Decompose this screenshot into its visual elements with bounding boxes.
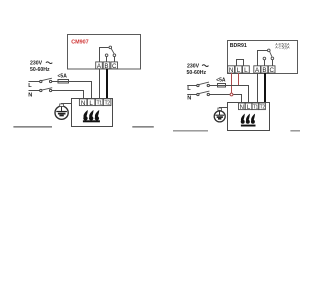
svg-text:50-60Hz: 50-60Hz (30, 67, 50, 73)
svg-text:C: C (269, 67, 274, 74)
svg-text:N: N (187, 96, 191, 102)
svg-text:N: N (229, 67, 233, 74)
svg-text:BDR91: BDR91 (230, 43, 247, 49)
svg-text:<5A: <5A (58, 74, 68, 80)
svg-text:CM907: CM907 (71, 40, 88, 46)
svg-text:B: B (104, 63, 108, 70)
svg-text:50-60Hz: 50-60Hz (187, 70, 207, 76)
svg-text:230V: 230V (30, 60, 43, 66)
svg-text:L: L (89, 100, 93, 107)
svg-text:A-C:5(3)A: A-C:5(3)A (275, 45, 290, 49)
svg-text:T2: T2 (260, 105, 266, 111)
svg-text:<5A: <5A (216, 77, 226, 83)
svg-text:T1: T1 (253, 105, 259, 111)
svg-text:L: L (237, 67, 241, 74)
svg-text:N: N (240, 105, 244, 111)
svg-text:T1: T1 (96, 101, 102, 107)
svg-text:B: B (262, 67, 266, 74)
svg-text:L: L (28, 83, 32, 89)
svg-text:N: N (28, 92, 32, 98)
svg-text:L: L (187, 86, 191, 92)
svg-text:L: L (244, 67, 248, 74)
svg-text:C: C (112, 63, 117, 70)
svg-text:230V: 230V (187, 63, 200, 69)
svg-text:N: N (81, 100, 85, 107)
svg-text:T2: T2 (104, 101, 110, 107)
